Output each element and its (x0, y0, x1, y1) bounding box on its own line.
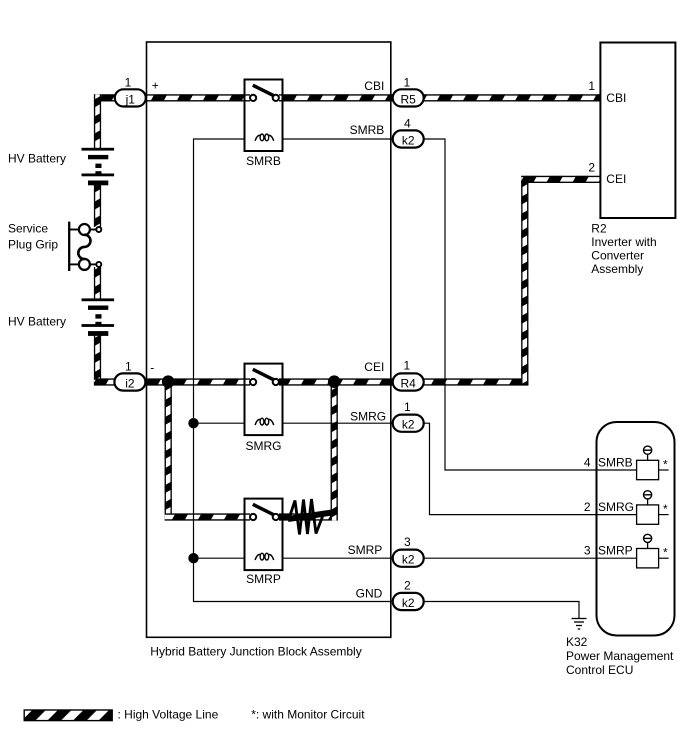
svg-text:2: 2 (588, 161, 595, 175)
svg-text:*: with Monitor Circuit: *: with Monitor Circuit (251, 707, 365, 721)
svg-text:k2: k2 (402, 418, 415, 432)
svg-text:SMRG: SMRG (350, 409, 386, 423)
svg-text:Control ECU: Control ECU (566, 663, 633, 677)
svg-text:j1: j1 (125, 92, 136, 106)
svg-text:CBI: CBI (606, 91, 626, 105)
svg-text:SMRB: SMRB (246, 154, 281, 168)
svg-text:2: 2 (584, 500, 591, 514)
svg-text:4: 4 (404, 117, 411, 131)
svg-text:2: 2 (404, 579, 411, 593)
svg-text:1: 1 (125, 360, 132, 374)
svg-text:K32: K32 (566, 635, 588, 649)
svg-text:SMRB: SMRB (598, 456, 633, 470)
svg-text:1: 1 (404, 400, 411, 414)
svg-text:1: 1 (588, 79, 595, 93)
svg-text:HV Battery: HV Battery (8, 152, 66, 166)
svg-text:HV Battery: HV Battery (8, 315, 66, 329)
svg-text:3: 3 (584, 544, 591, 558)
svg-text:Inverter with: Inverter with (591, 235, 656, 249)
svg-text:i2: i2 (125, 376, 135, 390)
svg-text:-: - (150, 360, 154, 374)
svg-text:GND: GND (356, 586, 383, 600)
svg-text:Service: Service (8, 222, 48, 236)
svg-text:k2: k2 (402, 133, 415, 147)
svg-text:SMRG: SMRG (246, 439, 282, 453)
svg-text:*: * (663, 502, 668, 516)
svg-text:Plug Grip: Plug Grip (8, 238, 58, 252)
svg-text:SMRP: SMRP (348, 543, 383, 557)
svg-text:1: 1 (404, 75, 411, 89)
svg-text:k2: k2 (402, 596, 415, 610)
svg-text:3: 3 (404, 535, 411, 549)
svg-text:SMRP: SMRP (246, 572, 281, 586)
svg-text:Power Management: Power Management (566, 649, 674, 663)
svg-text:1: 1 (125, 75, 132, 89)
svg-text:: High Voltage Line: : High Voltage Line (118, 707, 219, 721)
svg-text:R5: R5 (401, 92, 417, 106)
svg-text:Hybrid Battery Junction Block: Hybrid Battery Junction Block Assembly (150, 644, 361, 658)
svg-text:SMRP: SMRP (598, 544, 633, 558)
svg-text:*: * (663, 546, 668, 560)
svg-text:SMRG: SMRG (598, 500, 634, 514)
svg-text:CEI: CEI (606, 172, 626, 186)
svg-text:*: * (663, 458, 668, 472)
svg-text:CBI: CBI (364, 79, 384, 93)
svg-text:Converter: Converter (591, 249, 644, 263)
svg-text:R2: R2 (591, 222, 607, 236)
svg-text:Assembly: Assembly (591, 262, 643, 276)
svg-text:+: + (152, 78, 159, 92)
svg-text:4: 4 (584, 456, 591, 470)
svg-text:k2: k2 (402, 553, 415, 567)
svg-text:CEI: CEI (364, 360, 384, 374)
svg-text:1: 1 (404, 358, 411, 372)
svg-text:SMRB: SMRB (350, 123, 385, 137)
svg-text:R4: R4 (401, 376, 417, 390)
